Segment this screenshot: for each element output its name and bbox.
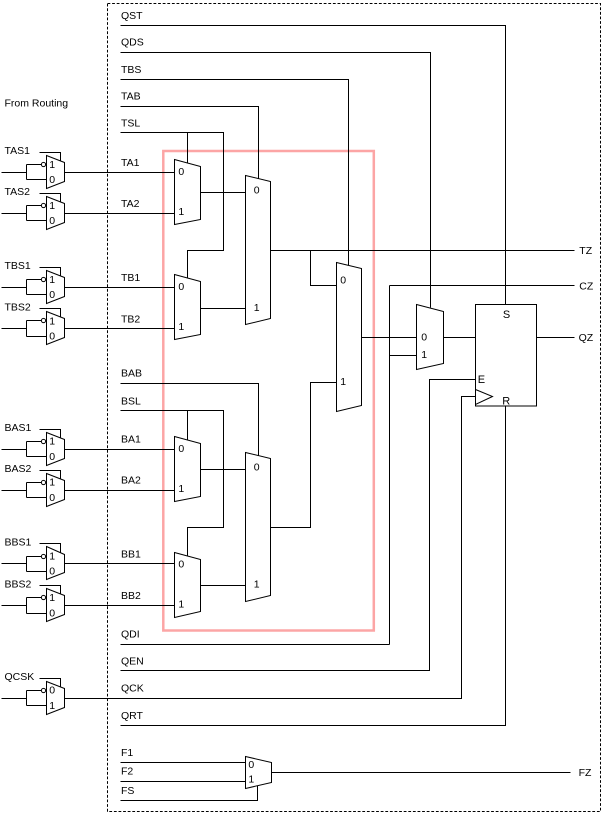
svg-text:TBS1: TBS1 [5,260,31,272]
svg-text:F2: F2 [121,766,133,778]
net TBS [121,64,349,266]
mux TZ/QDS-path (sel TBS) [337,263,362,412]
net F2 [121,781,246,783]
svg-text:BAS1: BAS1 [5,422,32,434]
svg-text:1: 1 [248,774,254,786]
svg-text:QRT: QRT [121,710,144,722]
mux QDS select (sel QDS) [417,305,444,370]
wire QDI stub to mux input 1 [390,355,417,357]
svg-text:1: 1 [178,599,184,611]
svg-text:FS: FS [121,785,134,797]
mux TB (sel TSL) [175,275,201,340]
svg-text:TBS: TBS [121,64,141,76]
svg-text:0: 0 [248,759,254,771]
net QRT [121,406,506,726]
svg-text:1: 1 [49,315,55,327]
svg-text:CZ: CZ [579,280,594,292]
svg-text:TB2: TB2 [121,313,140,325]
wire BB out [201,585,246,587]
svg-text:0: 0 [178,559,184,571]
svg-text:BAB: BAB [121,368,142,380]
wire BA out [201,469,246,471]
svg-text:1: 1 [49,550,55,562]
svg-text:0: 0 [49,331,55,343]
mux TAB (sel TAB) [246,176,271,325]
svg-text:0: 0 [49,492,55,504]
svg-text:1: 1 [254,579,260,591]
svg-text:0: 0 [49,607,55,619]
svg-text:BBS2: BBS2 [5,578,32,590]
svg-text:QCK: QCK [121,683,144,695]
input mux QCSK [2,671,65,715]
input mux BAS1 [2,422,175,466]
svg-text:TBS2: TBS2 [5,302,31,314]
svg-text:0: 0 [421,331,427,343]
svg-text:BB1: BB1 [121,548,141,560]
svg-text:R: R [502,395,510,407]
wire TB out [201,308,246,310]
svg-text:0: 0 [49,215,55,227]
mux F (sel FS) [246,757,272,789]
svg-text:1: 1 [254,302,260,314]
svg-text:0: 0 [178,281,184,293]
net TAB [121,91,259,179]
net BAB [121,384,259,456]
flip-flop U1 [476,305,537,408]
pink highlight box (logic region) [163,151,373,631]
mux BA (sel BSL) [175,437,201,502]
svg-text:1: 1 [421,349,427,361]
svg-text:BB2: BB2 [121,590,141,602]
wire tap to big mux input 0 [311,251,337,286]
svg-text:1: 1 [49,200,55,212]
wire BAB out to big mux input 1 [271,383,337,528]
svg-text:TB1: TB1 [121,272,140,284]
net BSL [121,411,224,556]
mux BAB (sel BAB) [246,453,271,602]
svg-text:0: 0 [178,166,184,178]
svg-text:From Routing: From Routing [5,98,69,110]
wire TAB out to TZ [271,250,575,252]
net FZ [272,772,571,774]
svg-text:TZ: TZ [579,245,592,257]
svg-text:1: 1 [49,436,55,448]
svg-text:TAS2: TAS2 [5,186,31,198]
input mux BBS1 [2,537,175,580]
input mux TAS2 [2,186,175,229]
net FS [121,786,258,801]
svg-text:QCSK: QCSK [5,671,35,683]
svg-text:0: 0 [178,443,184,455]
svg-text:QDS: QDS [121,37,144,49]
svg-text:F1: F1 [121,747,133,759]
input mux TBS2 [2,302,175,345]
net CZ [390,285,575,287]
svg-text:BBS1: BBS1 [5,537,32,549]
svg-text:BA2: BA2 [121,475,141,487]
svg-text:BA1: BA1 [121,434,141,446]
svg-text:TAS1: TAS1 [5,145,31,157]
svg-text:1: 1 [178,206,184,218]
wire big mux out [362,337,417,339]
svg-text:1: 1 [49,700,55,712]
svg-text:1: 1 [49,159,55,171]
wire QZ out [537,337,575,339]
svg-text:0: 0 [254,462,260,474]
net QDI [121,644,390,646]
svg-text:FZ: FZ [579,767,592,779]
svg-text:0: 0 [49,685,55,697]
net F1 [121,762,246,764]
net QCK [65,397,476,699]
input mux TAS1 [2,145,175,188]
svg-text:TAB: TAB [121,91,141,103]
input mux TBS1 [2,260,175,303]
svg-text:1: 1 [178,321,184,333]
svg-text:QZ: QZ [579,332,594,344]
svg-text:QDI: QDI [121,629,140,641]
input mux BBS2 [2,578,175,621]
svg-text:S: S [503,309,510,321]
svg-text:BSL: BSL [121,395,141,407]
svg-text:BAS2: BAS2 [5,463,32,475]
net QEN [121,380,476,671]
svg-text:TA1: TA1 [121,157,140,169]
svg-text:1: 1 [340,376,346,388]
svg-text:1: 1 [49,592,55,604]
net QDS [121,37,431,308]
svg-text:QST: QST [121,10,143,22]
svg-text:0: 0 [49,451,55,463]
net QST [121,10,506,305]
input mux BAS2 [2,463,175,507]
svg-text:0: 0 [49,289,55,301]
wire TA out [201,192,246,194]
wire QDS mux out to FF D [444,337,476,339]
svg-text:0: 0 [49,566,55,578]
wire QDI vertical [389,286,391,645]
svg-text:QEN: QEN [121,656,144,668]
svg-text:1: 1 [49,477,55,489]
svg-text:1: 1 [49,274,55,286]
svg-text:0: 0 [340,274,346,286]
net TSL [121,117,224,278]
svg-text:TA2: TA2 [121,198,140,210]
svg-text:TSL: TSL [121,117,140,129]
svg-text:0: 0 [49,174,55,186]
svg-text:0: 0 [254,185,260,197]
svg-text:E: E [478,374,485,386]
mux TA (sel TSL) [175,160,201,225]
mux BB (sel BSL) [175,553,201,618]
svg-text:1: 1 [178,483,184,495]
